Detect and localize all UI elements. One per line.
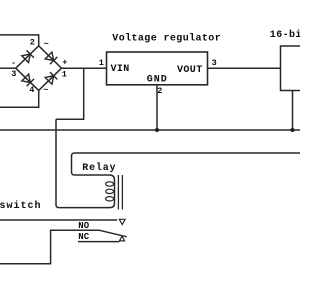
svg-text:switch: switch — [0, 200, 42, 212]
wire common pole to bottom left — [0, 230, 100, 263]
relay NC contact wire — [78, 241, 120, 243]
relay common arm wire — [100, 230, 127, 237]
diode D3 bridge bottom-left — [22, 74, 34, 86]
svg-text:4: 4 — [29, 85, 34, 95]
svg-text:1: 1 — [99, 58, 104, 68]
junction dot regulator GND on bus — [155, 128, 159, 132]
diode D1 bridge top-left — [21, 50, 33, 62]
svg-text:Voltage regulator: Voltage regulator — [112, 33, 221, 45]
wire card down to ground bus — [292, 91, 294, 131]
relay NO contact triangle — [119, 219, 125, 224]
svg-text:2: 2 — [157, 86, 162, 96]
svg-text:+: + — [62, 58, 67, 68]
wire AC top to bridge pin 2 — [0, 35, 39, 46]
bridge rectifier BR1 diamond — [16, 46, 62, 91]
wire bridge pin 4 to left edge — [0, 90, 39, 107]
svg-text:~: ~ — [43, 85, 48, 95]
wire + rail down and across to relay coil feed — [56, 68, 84, 119]
diode D4 bridge bottom-right — [45, 72, 57, 84]
junction dot card ground on bus — [291, 128, 295, 132]
relay NO contact wire — [0, 219, 117, 221]
svg-text:~: ~ — [44, 39, 49, 49]
relay coil loops — [106, 182, 114, 186]
svg-text:1: 1 — [62, 70, 67, 80]
svg-text:NC: NC — [78, 232, 89, 242]
relay NC contact triangle — [119, 236, 124, 241]
svg-text:3: 3 — [11, 69, 16, 79]
ground bus wire — [0, 129, 300, 131]
svg-text:2: 2 — [30, 38, 35, 48]
voltage regulator U1 box — [107, 52, 208, 85]
relay core lines — [118, 175, 122, 210]
relay RL1 coil and leads — [56, 119, 300, 207]
svg-text:VIN: VIN — [111, 64, 130, 75]
wire bridge pin 3 to left edge — [0, 67, 16, 69]
svg-text:NO: NO — [78, 221, 89, 231]
16-bit I/O card box — [281, 46, 302, 91]
wire GND pin 2 down — [156, 85, 158, 130]
svg-text:16-bit: 16-bit — [270, 29, 300, 41]
svg-text:Relay: Relay — [82, 162, 116, 174]
svg-text:3: 3 — [212, 58, 217, 68]
svg-text:-: - — [11, 58, 16, 68]
wire VOUT pin 3 to 16-bit card — [208, 67, 281, 69]
wire bridge + output to VIN — [62, 67, 107, 69]
svg-text:GND: GND — [147, 75, 168, 86]
diode D2 bridge top-right — [45, 52, 57, 64]
svg-text:VOUT: VOUT — [177, 65, 203, 76]
